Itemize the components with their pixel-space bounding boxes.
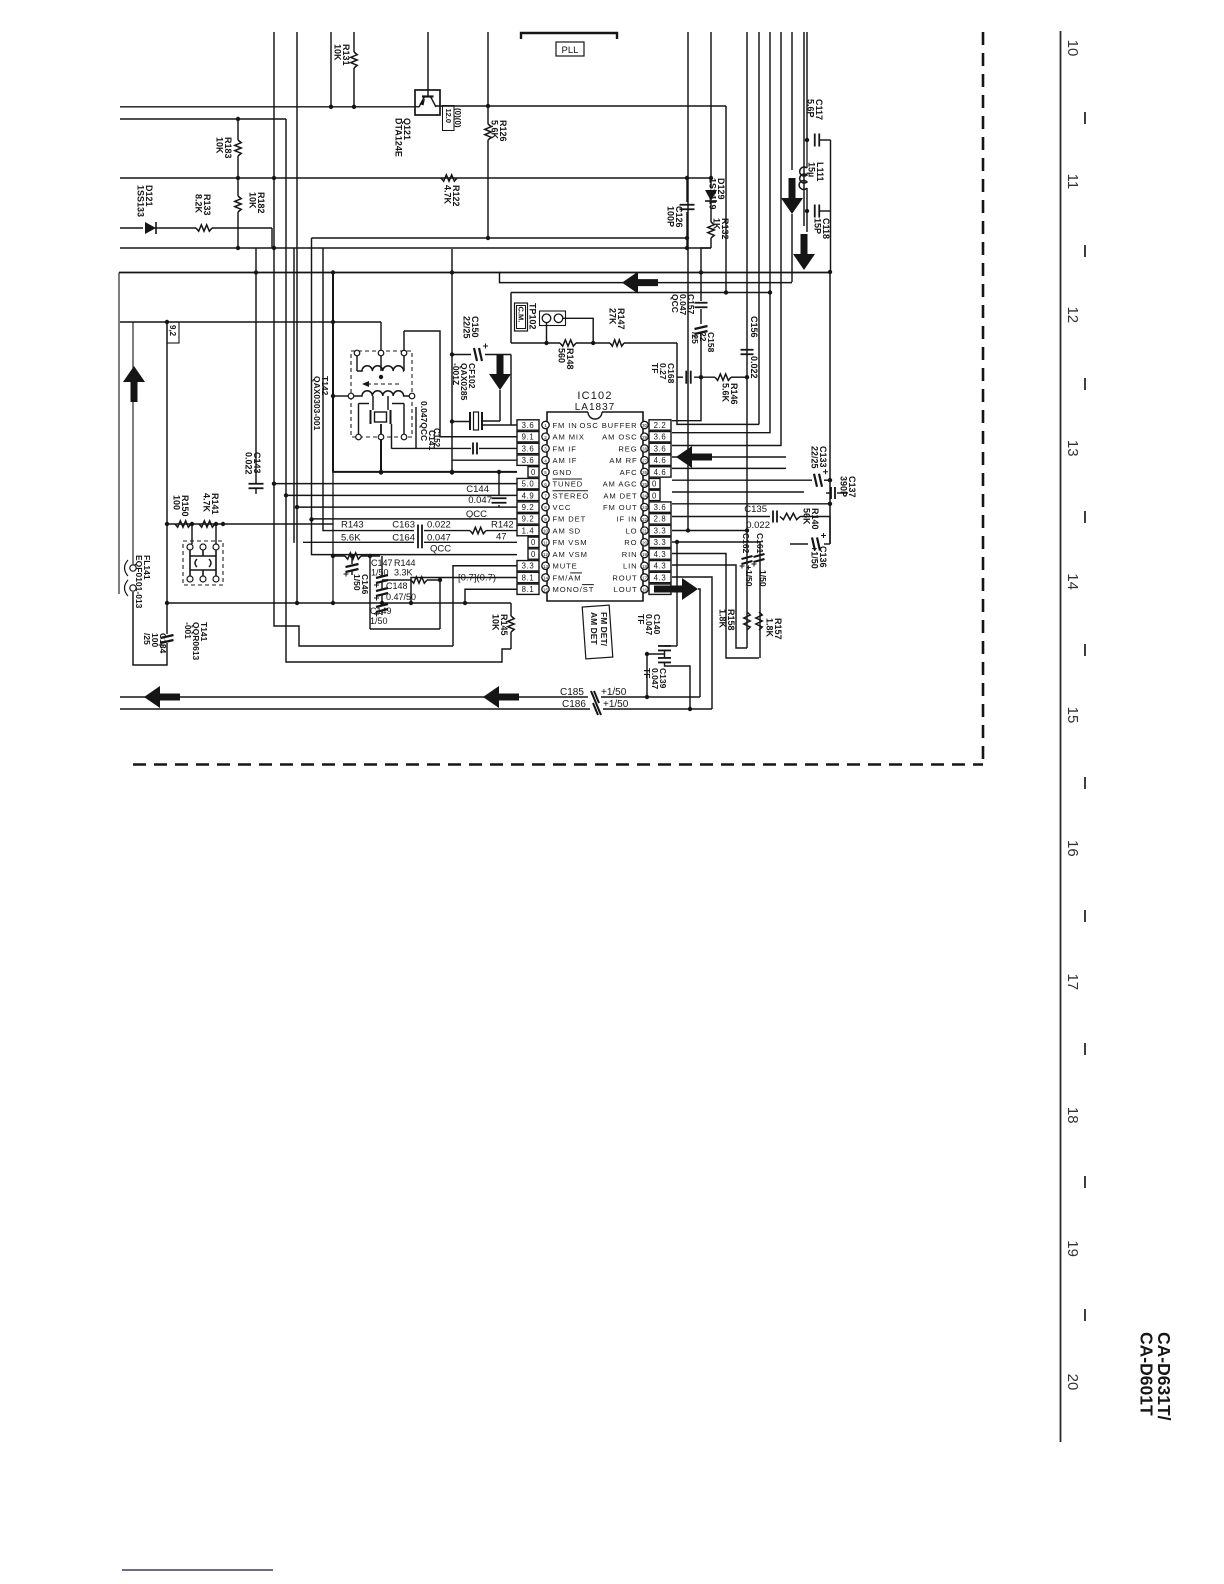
wire: [120, 106, 419, 108]
svg-text:18: 18: [642, 564, 648, 569]
wire: [120, 177, 711, 179]
wire: [132, 322, 134, 565]
capacitor C140: [665, 645, 678, 647]
capacitor C146: [351, 556, 353, 564]
svg-text:+1/50: +1/50: [603, 699, 629, 710]
svg-text:9,2: 9,2: [168, 325, 177, 337]
wire: [440, 436, 517, 438]
capacitor C156: [741, 349, 754, 351]
svg-text:C1400.047TF: C1400.047TF: [636, 614, 662, 636]
wire: [725, 106, 727, 293]
wire: [672, 530, 747, 532]
wire: [672, 479, 812, 481]
pin 19 RIN: [641, 550, 648, 557]
svg-text:5.6K: 5.6K: [341, 532, 361, 543]
svg-text:C126100P: C126100P: [666, 206, 685, 228]
svg-text:C1570.047QCC: C1570.047QCC: [670, 294, 696, 316]
svg-text:R1571.8K: R1571.8K: [765, 618, 784, 640]
pin 3 FM IF: [542, 445, 549, 452]
resistor R150: [175, 521, 191, 527]
svg-text:AM DET: AM DET: [603, 491, 637, 500]
resistor R133: [196, 225, 212, 231]
capacitor C135: [772, 511, 774, 523]
svg-text:L11115µ: L11115µ: [807, 162, 826, 182]
arrow left on AM RF row: [676, 446, 712, 468]
svg-text:QCC: QCC: [430, 543, 451, 554]
pin 15 MONO/ST: [542, 586, 549, 593]
svg-text:TP102: TP102: [528, 303, 538, 330]
svg-text:CA-D631T/CA-D601T: CA-D631T/CA-D601T: [1137, 1332, 1175, 1421]
pin 22 IF IN: [641, 515, 648, 522]
diode D121: [120, 227, 143, 229]
wire: [369, 556, 371, 629]
svg-text:C149: C149: [370, 606, 392, 616]
pin 5 GND: [542, 468, 549, 475]
svg-text:17: 17: [1064, 973, 1081, 990]
capacitor C185: [591, 691, 599, 703]
svg-text:4: 4: [544, 458, 547, 463]
resistor R147: [593, 342, 610, 344]
capacitor C133: [814, 474, 817, 487]
svg-text:7: 7: [544, 493, 547, 498]
svg-text:FM IF: FM IF: [553, 444, 577, 453]
svg-text:C136+1/50: C136+1/50: [810, 546, 829, 569]
pin 6 TUNED: [542, 480, 549, 487]
svg-text:LA1837: LA1837: [575, 402, 615, 413]
svg-text:MUTE: MUTE: [553, 562, 578, 571]
pin 25 AM AGC: [641, 480, 648, 487]
svg-text:0.047: 0.047: [468, 495, 492, 506]
filter CF102: [452, 421, 469, 423]
capacitor C126: [686, 178, 688, 202]
op-amp U1 IC102 body: [588, 412, 602, 419]
svg-text:13: 13: [543, 564, 549, 569]
wire: [465, 589, 517, 603]
wire: [312, 238, 518, 555]
svg-text:14: 14: [543, 576, 549, 581]
capacitor C163: [417, 525, 419, 537]
resistor R143: [333, 555, 345, 557]
wire: [380, 439, 382, 473]
svg-text:PLL: PLL: [562, 45, 579, 56]
wire: [415, 407, 417, 449]
arrow down CF102 feed: [489, 354, 511, 390]
resistor R158: [744, 612, 750, 630]
svg-text:FM IN: FM IN: [553, 421, 578, 430]
svg-text:IC102: IC102: [577, 390, 612, 402]
svg-text:16: 16: [642, 587, 648, 592]
capacitor C137: [826, 492, 830, 494]
capacitor C168: [677, 376, 683, 378]
svg-text:18: 18: [1064, 1107, 1081, 1124]
capacitor C136: [824, 543, 830, 545]
svg-text:R1224.7K: R1224.7K: [443, 185, 462, 207]
svg-text:R18310K: R18310K: [215, 137, 234, 159]
svg-text:D1211SS133: D1211SS133: [136, 185, 155, 217]
wire: [672, 503, 830, 505]
wire: [510, 355, 512, 426]
pin 8 VCC: [542, 503, 549, 510]
pin 14 FM/AM: [542, 574, 549, 581]
svg-text:R1465.6K: R1465.6K: [721, 383, 740, 405]
capacitor C147: [381, 556, 383, 576]
svg-text:25: 25: [642, 482, 648, 487]
svg-text:8.1: 8.1: [522, 573, 535, 582]
resistor R140: [780, 513, 800, 519]
svg-text:FM DET: FM DET: [553, 515, 587, 524]
svg-text:4.3: 4.3: [654, 550, 667, 559]
svg-text:Q121DTA124E: Q121DTA124E: [394, 118, 413, 157]
svg-text:2: 2: [544, 435, 547, 440]
svg-text:D1291SS119: D1291SS119: [708, 178, 727, 210]
transformer T142: [351, 351, 412, 437]
svg-text:4.9: 4.9: [522, 491, 535, 500]
svg-text:4.6: 4.6: [654, 468, 667, 477]
pin 12 AM VSM: [542, 550, 549, 557]
svg-text:T141QQR0613-001: T141QQR0613-001: [183, 622, 209, 661]
svg-text:28: 28: [642, 447, 648, 452]
svg-text:3.3: 3.3: [522, 562, 535, 571]
svg-text:11: 11: [1064, 174, 1081, 190]
wire: [271, 228, 273, 248]
svg-text:3.6: 3.6: [654, 444, 667, 453]
svg-text:2.8: 2.8: [654, 515, 667, 524]
pin 4 AM IF: [542, 456, 549, 463]
svg-text:R1265.6K: R1265.6K: [490, 120, 509, 142]
filter FL141: [183, 541, 223, 585]
pin 21 LO: [641, 527, 648, 534]
wire: [672, 456, 786, 458]
svg-text:C.M.: C.M.: [517, 307, 526, 323]
node connector terminals: [130, 565, 136, 571]
wire: [332, 273, 334, 473]
svg-text:3.6: 3.6: [522, 421, 535, 430]
wire: [411, 577, 517, 603]
node PLL bus bracket: [521, 33, 617, 39]
wire: [380, 322, 382, 351]
svg-text:4.3: 4.3: [654, 562, 667, 571]
wire: [563, 318, 593, 343]
svg-text:11: 11: [543, 540, 548, 545]
wire: [672, 554, 759, 659]
svg-text:20: 20: [642, 540, 648, 545]
wire: [672, 32, 781, 446]
svg-text:13: 13: [1064, 440, 1081, 457]
svg-text:0: 0: [531, 550, 536, 559]
svg-text:4.3: 4.3: [654, 573, 667, 582]
capacitor C186: [593, 703, 601, 715]
wire: [677, 343, 759, 424]
svg-text:AM OSC: AM OSC: [602, 433, 637, 442]
svg-text:C163: C163: [392, 520, 415, 531]
svg-text:0.022: 0.022: [746, 520, 770, 531]
svg-text:+1/50: +1/50: [601, 687, 627, 698]
svg-text:47: 47: [496, 532, 507, 543]
svg-text:C15022/25: C15022/25: [462, 316, 481, 339]
svg-text:12: 12: [543, 552, 549, 557]
pin 29 AM OSC: [641, 433, 648, 440]
svg-text:8.1: 8.1: [522, 585, 535, 594]
svg-text:26: 26: [642, 470, 648, 475]
svg-text:R1414.7K: R1414.7K: [202, 493, 221, 515]
svg-text:3.3K: 3.3K: [394, 568, 413, 578]
svg-text:C156: C156: [749, 316, 759, 338]
svg-text:24: 24: [642, 493, 648, 498]
wire: [672, 516, 770, 518]
wire: [392, 447, 472, 449]
svg-text:16: 16: [1064, 840, 1081, 857]
svg-text:AFC: AFC: [620, 468, 638, 477]
capacitor C162: [742, 556, 753, 559]
pin 24 AM DET: [641, 492, 648, 499]
svg-text:9.1: 9.1: [522, 433, 535, 442]
wire: [404, 331, 440, 438]
svg-text:FM VSM: FM VSM: [553, 538, 588, 547]
svg-text:LO: LO: [626, 526, 638, 535]
pin 28 REG: [641, 445, 648, 452]
svg-text:C184100/25: C184100/25: [142, 633, 168, 654]
svg-text:C15822/25: C15822/25: [690, 332, 716, 353]
wire: [701, 248, 711, 273]
svg-text:R18210K: R18210K: [248, 192, 267, 214]
svg-text:17: 17: [642, 576, 648, 581]
wire: [322, 248, 324, 531]
resistor R132: [708, 222, 714, 238]
svg-text:R1338.2K: R1338.2K: [194, 194, 213, 216]
wire: [155, 227, 196, 229]
pin 20 RO: [641, 539, 648, 546]
svg-text:RO: RO: [624, 538, 637, 547]
svg-text:C161: C161: [755, 533, 765, 554]
svg-text:OSC BUFFER: OSC BUFFER: [580, 421, 638, 430]
svg-text:15: 15: [1064, 707, 1081, 724]
pin 1 FM IN: [542, 421, 549, 428]
capacitor C118: [814, 205, 816, 218]
svg-text:29: 29: [642, 435, 648, 440]
crystal C141 network: [372, 396, 374, 410]
svg-text:VCC: VCC: [553, 503, 572, 512]
capacitor C184: [161, 635, 174, 638]
svg-text:C11815P: C11815P: [813, 218, 832, 239]
svg-text:9: 9: [544, 517, 547, 522]
svg-text:0: 0: [531, 538, 536, 547]
pin 9 FM DET: [542, 515, 549, 522]
svg-text:ROUT: ROUT: [612, 573, 637, 582]
svg-text:19: 19: [1064, 1240, 1081, 1257]
pin 2 AM MIX: [542, 433, 549, 440]
svg-text:R14510K: R14510K: [491, 614, 510, 636]
wire: [427, 32, 429, 97]
svg-text:1/50: 1/50: [758, 570, 768, 587]
svg-text:12.0: 12.0: [444, 109, 453, 124]
pin 27 AM RF: [641, 456, 648, 463]
svg-text:3: 3: [544, 447, 547, 452]
svg-text:STEREO: STEREO: [553, 491, 590, 500]
capacitor C158: [700, 309, 702, 324]
resistor R146: [715, 374, 731, 380]
svg-text:3.6: 3.6: [654, 503, 667, 512]
wire: [133, 763, 983, 766]
svg-text:C152: C152: [432, 428, 441, 448]
arrow down on V792: [781, 178, 803, 214]
node PLL label: [556, 42, 584, 56]
pin 26 AFC: [641, 468, 648, 475]
svg-text:C1430.022: C1430.022: [244, 452, 263, 475]
svg-text:0.022: 0.022: [749, 356, 759, 379]
capacitor C149: [381, 595, 383, 602]
svg-text:10: 10: [1064, 40, 1081, 57]
svg-text:0.47/50: 0.47/50: [386, 592, 416, 602]
svg-text:LOUT: LOUT: [614, 585, 638, 594]
svg-text:T142QAX0303-001: T142QAX0303-001: [312, 376, 330, 431]
svg-text:1/50: 1/50: [370, 616, 388, 626]
svg-text:C1175.6P: C1175.6P: [806, 99, 825, 120]
svg-text:FM DET/AM DET: FM DET/AM DET: [589, 612, 609, 647]
svg-text:10: 10: [543, 529, 549, 534]
wire: [370, 628, 440, 630]
wire: [118, 273, 120, 595]
resistor R148: [511, 342, 560, 344]
wire: [453, 566, 517, 646]
svg-text:TUNED: TUNED: [553, 480, 584, 489]
pin 11 FM VSM: [542, 539, 549, 546]
svg-text:C186: C186: [562, 699, 586, 710]
svg-text:15: 15: [543, 587, 549, 592]
wire: [1084, 112, 1086, 124]
pin 16 LOUT: [641, 586, 648, 593]
diode D129: [710, 32, 712, 188]
svg-text:C147: C147: [371, 558, 393, 568]
svg-text:+1/50: +1/50: [744, 565, 754, 587]
svg-text:0.022: 0.022: [427, 520, 451, 531]
svg-text:FM OUT: FM OUT: [603, 503, 638, 512]
wire: [166, 322, 168, 634]
wire: [274, 32, 453, 646]
svg-text:0: 0: [652, 491, 657, 500]
wire: [828, 270, 832, 274]
svg-text:C13322/25: C13322/25: [810, 446, 829, 469]
svg-text:LIN: LIN: [623, 562, 638, 571]
wire: [452, 459, 517, 461]
svg-text:CF102QAX0285-001Z: CF102QAX0285-001Z: [451, 363, 477, 401]
svg-text:AM RF: AM RF: [609, 456, 637, 465]
svg-text:19: 19: [642, 552, 648, 557]
svg-text:C144: C144: [466, 484, 489, 495]
resistor R144: [382, 579, 411, 581]
wire: [119, 270, 830, 273]
wire: [511, 292, 771, 294]
capacitor C152: [472, 442, 474, 454]
pin 7 STEREO: [542, 492, 549, 499]
svg-text:AM VSM: AM VSM: [553, 550, 588, 559]
svg-text:R1321K: R1321K: [712, 218, 731, 240]
svg-text:12: 12: [1064, 306, 1081, 323]
wire: [286, 494, 517, 496]
svg-text:3.6: 3.6: [522, 444, 535, 453]
svg-text:C135: C135: [744, 504, 767, 515]
wire: [167, 523, 333, 525]
wire: [647, 654, 665, 697]
svg-text:14: 14: [1064, 573, 1081, 590]
wire: [803, 32, 805, 226]
node test point TP102: [510, 293, 512, 344]
pin 18 LIN: [641, 562, 648, 569]
svg-text:1: 1: [544, 423, 547, 428]
wire: [746, 32, 748, 648]
wire: [297, 506, 517, 508]
svg-text:3.3: 3.3: [654, 526, 667, 535]
svg-text:22: 22: [642, 517, 648, 522]
wire: [1060, 31, 1062, 1442]
arrow down on V804: [793, 234, 815, 270]
svg-text:AM AGC: AM AGC: [603, 480, 638, 489]
wire: [120, 696, 588, 698]
node voltage box 9,2: [167, 322, 179, 343]
svg-text:21: 21: [642, 529, 648, 534]
svg-text:C1390.047TF: C1390.047TF: [642, 668, 668, 690]
svg-text:23: 23: [642, 505, 648, 510]
svg-text:5: 5: [544, 470, 547, 475]
pin 13 MUTE: [542, 562, 549, 569]
svg-text:3.6: 3.6: [654, 433, 667, 442]
svg-text:REG: REG: [618, 444, 637, 453]
resistor R122: [441, 175, 457, 181]
inductor L111: [806, 140, 808, 168]
svg-text:8: 8: [544, 505, 547, 510]
wire: [286, 119, 511, 662]
wire: [500, 272, 793, 283]
resistor R157: [756, 612, 762, 630]
resistor R142: [470, 527, 486, 533]
wire: [698, 589, 700, 697]
svg-text:GND: GND: [553, 468, 573, 477]
wire: [296, 32, 298, 603]
pin 17 ROUT: [641, 574, 648, 581]
wire: [120, 321, 381, 323]
arrow left on C185 line: [483, 686, 519, 708]
svg-text:MONO/ST: MONO/ST: [553, 585, 595, 594]
resistor R145: [510, 603, 512, 616]
wire: [274, 483, 517, 485]
svg-text:AM SD: AM SD: [553, 526, 582, 535]
wire: [333, 471, 517, 473]
svg-text:3.6: 3.6: [522, 456, 535, 465]
wire: [451, 249, 453, 473]
svg-text:R143: R143: [341, 520, 364, 531]
wire: [672, 467, 786, 469]
svg-text:30: 30: [642, 423, 648, 428]
svg-text:C164: C164: [392, 532, 415, 543]
wire: [312, 518, 518, 520]
svg-text:0.047: 0.047: [427, 532, 451, 543]
svg-text:AM MIX: AM MIX: [553, 433, 585, 442]
wire: [312, 237, 688, 239]
svg-text:20: 20: [1064, 1374, 1081, 1391]
svg-text:C1461/50: C1461/50: [352, 574, 370, 595]
svg-text:C162: C162: [741, 533, 751, 554]
svg-text:0: 0: [652, 480, 657, 489]
arrow up at left: [123, 366, 145, 402]
svg-text:R1581.8K: R1581.8K: [718, 609, 737, 631]
wire: [672, 541, 760, 543]
wire: [323, 530, 414, 532]
svg-text:4.6: 4.6: [654, 456, 667, 465]
resistor R141: [199, 521, 215, 527]
svg-text:1.4: 1.4: [522, 526, 535, 535]
wire: [676, 542, 678, 646]
svg-text:C137390P: C137390P: [839, 476, 858, 498]
svg-text:27: 27: [642, 458, 648, 463]
